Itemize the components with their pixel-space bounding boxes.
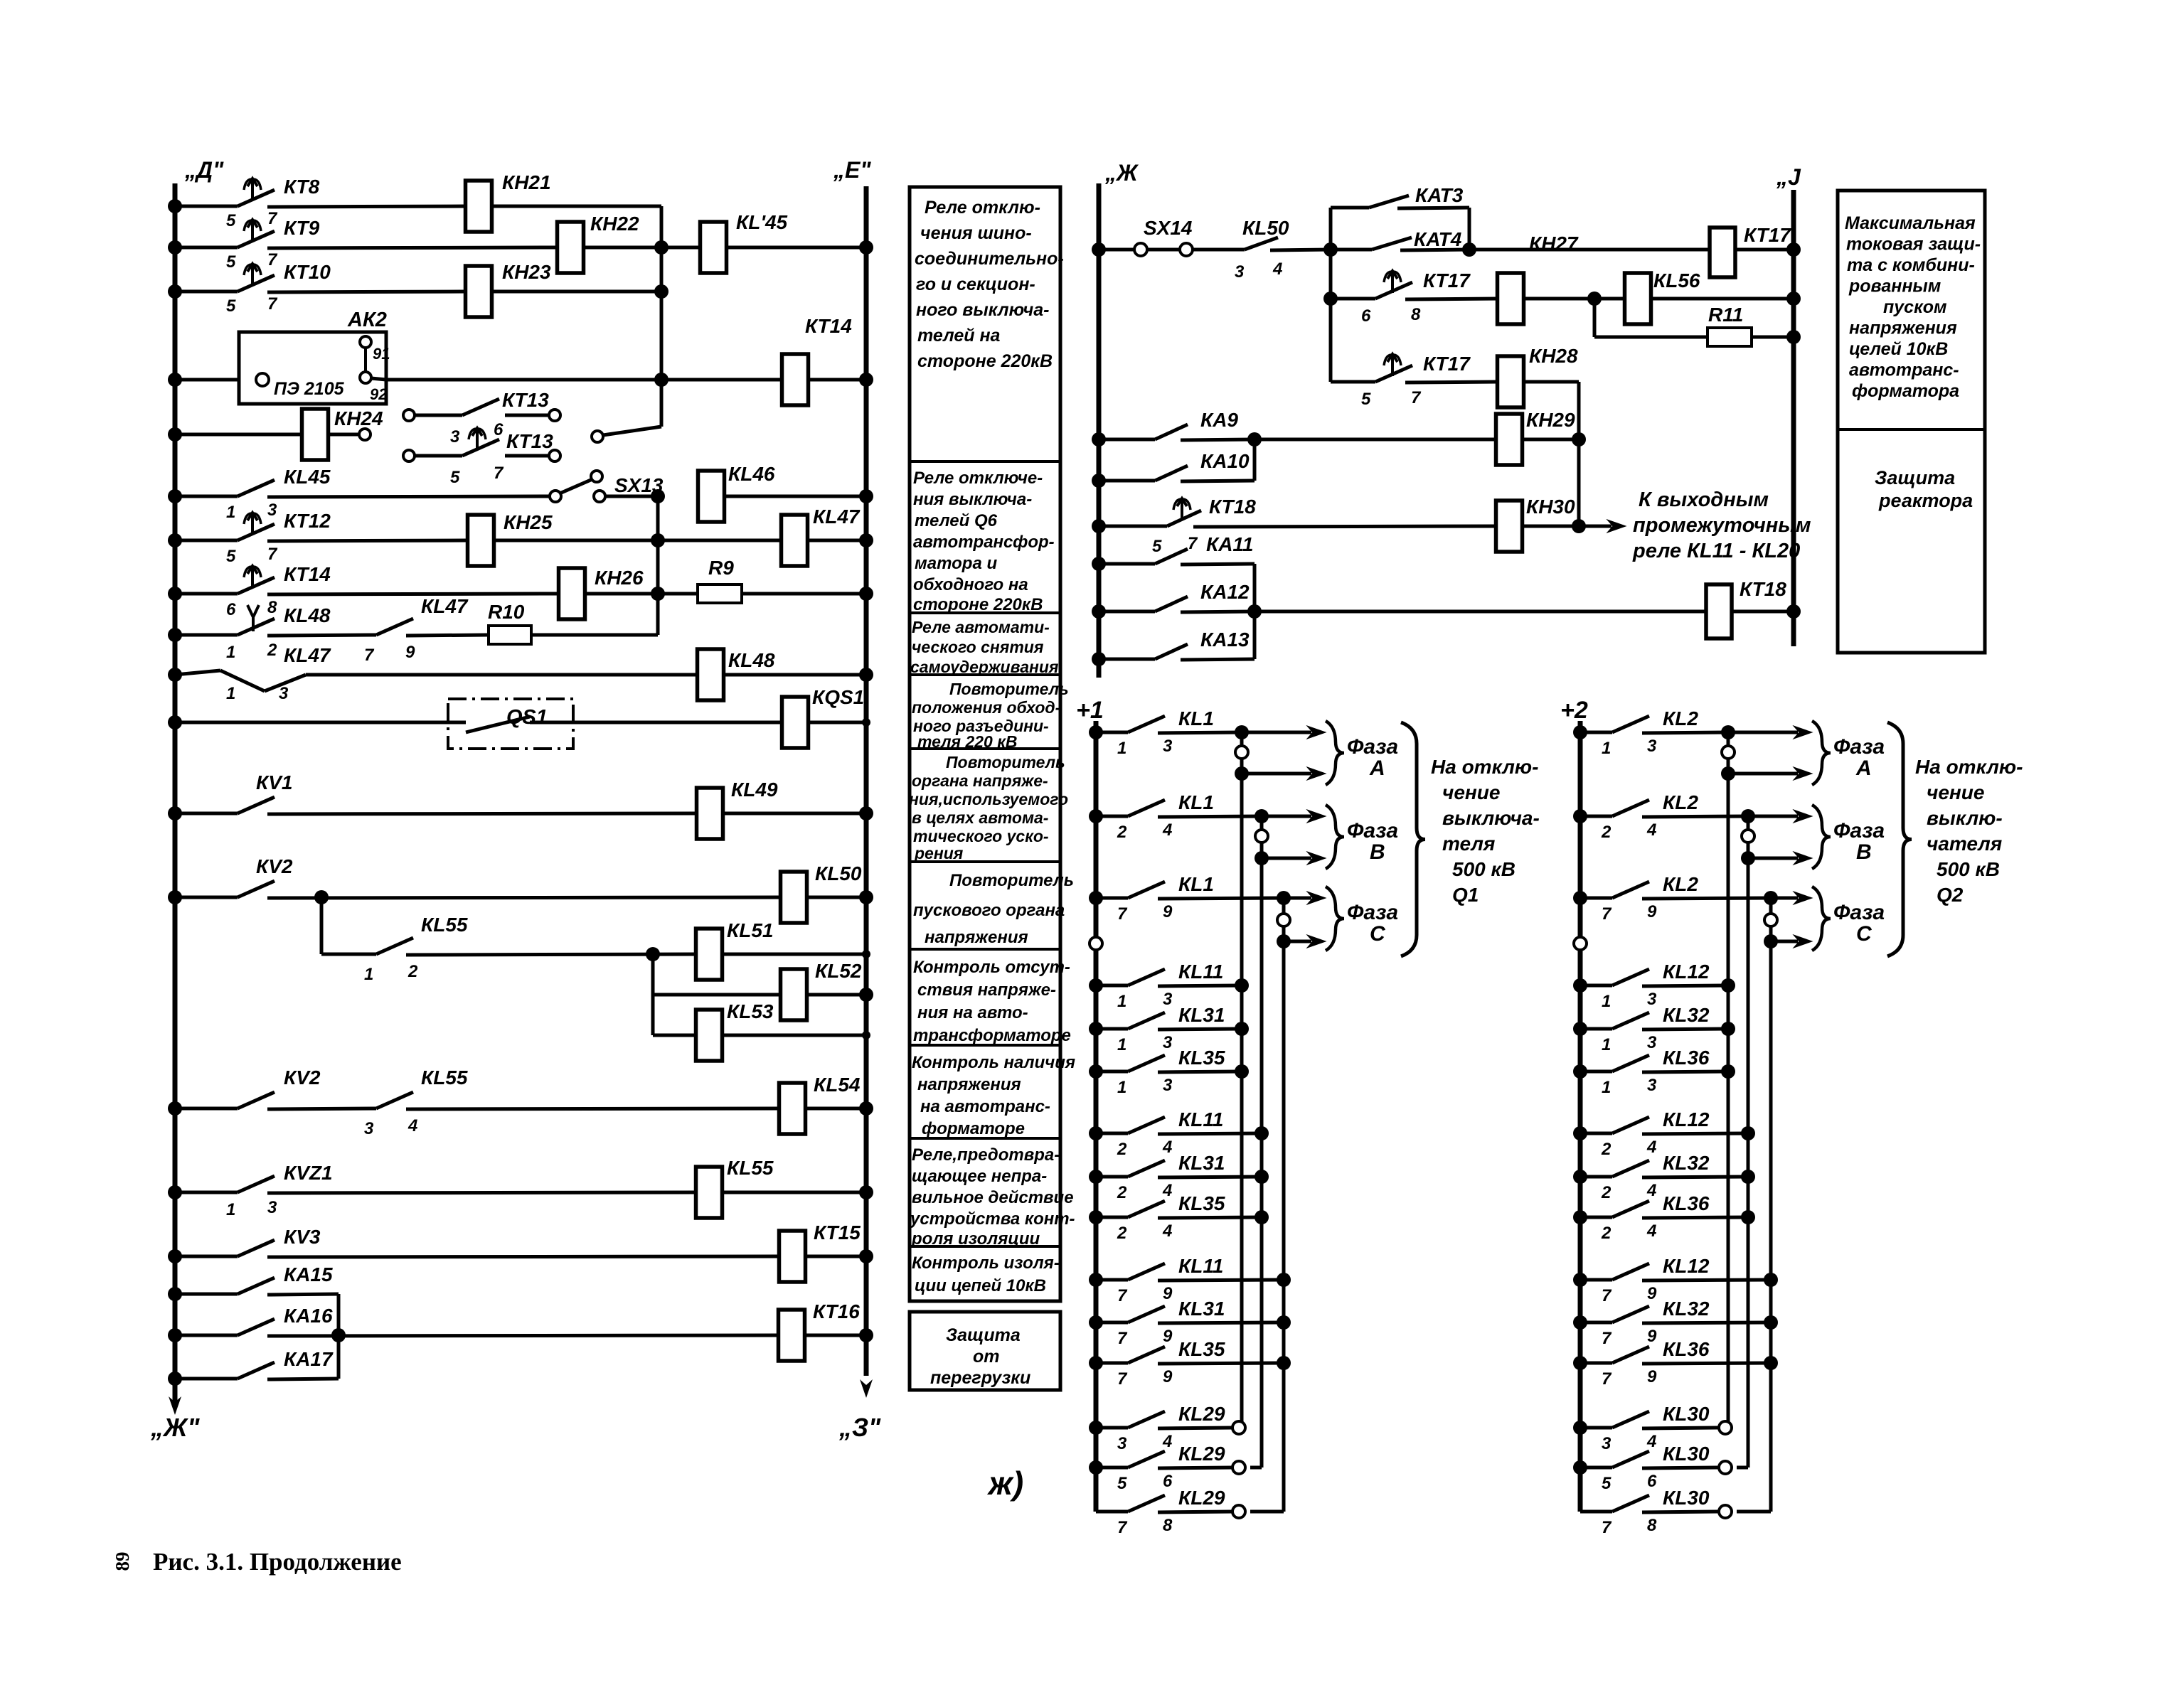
svg-text:положения обход-: положения обход- xyxy=(912,698,1060,717)
svg-text:КL12: КL12 xyxy=(1663,1108,1710,1130)
svg-text:9: 9 xyxy=(1647,1367,1657,1386)
junction xyxy=(1247,432,1262,447)
svg-text:5: 5 xyxy=(226,211,236,230)
svg-text:R10: R10 xyxy=(488,601,525,623)
svg-text:реле КL11 - КL20: реле КL11 - КL20 xyxy=(1632,540,1800,562)
svg-text:КL12: КL12 xyxy=(1663,1255,1710,1277)
svg-text:Повторитель: Повторитель xyxy=(946,753,1065,771)
coil KQS1 xyxy=(782,686,865,748)
wire xyxy=(605,495,658,498)
svg-text:КТ8: КТ8 xyxy=(284,176,320,198)
wire phase vertical xyxy=(1240,732,1244,774)
junction xyxy=(1572,519,1586,533)
svg-text:9: 9 xyxy=(1163,902,1173,921)
contact КL35 (7-9) xyxy=(1096,1338,1284,1389)
junction xyxy=(859,806,873,820)
svg-text:1: 1 xyxy=(1602,739,1611,758)
svg-text:9: 9 xyxy=(405,643,415,662)
wire xyxy=(804,1334,866,1337)
junction xyxy=(646,947,660,961)
junction xyxy=(314,890,329,904)
junction xyxy=(1741,1170,1755,1184)
junction xyxy=(1089,1210,1103,1224)
svg-text:5: 5 xyxy=(1602,1474,1612,1493)
wire xyxy=(807,539,866,542)
svg-text:КV2: КV2 xyxy=(256,855,293,877)
svg-text:КН21: КН21 xyxy=(502,171,551,193)
coil KH29 xyxy=(1496,409,1576,465)
arrow phase output xyxy=(1247,767,1326,780)
wire xyxy=(1253,564,1257,659)
junction xyxy=(1092,557,1106,571)
wire phase vertical xyxy=(1282,898,1286,941)
junction xyxy=(168,373,182,387)
svg-text:4: 4 xyxy=(407,1116,417,1135)
contact КL2 (7-9) xyxy=(1580,873,1771,924)
svg-text:9: 9 xyxy=(1163,1367,1173,1386)
wire xyxy=(1522,525,1579,528)
junction xyxy=(1573,1022,1587,1036)
junction xyxy=(168,1328,182,1342)
contact KA13 xyxy=(1099,629,1255,660)
wire xyxy=(724,495,866,498)
wire xyxy=(530,721,782,725)
contact КL11 (1-3) xyxy=(1096,961,1242,1011)
junction xyxy=(859,1328,873,1342)
svg-text:2: 2 xyxy=(407,962,418,981)
connector circle xyxy=(1722,746,1735,759)
svg-text:КА9: КА9 xyxy=(1200,409,1238,431)
junction xyxy=(1573,1210,1587,1224)
wire xyxy=(723,812,866,816)
contact КL32 (7-9) xyxy=(1580,1298,1771,1348)
svg-text:КL35: КL35 xyxy=(1178,1192,1225,1214)
big brace xyxy=(1401,722,1425,956)
wire xyxy=(1735,248,1794,252)
svg-text:КL31: КL31 xyxy=(1178,1152,1225,1174)
switch SX14 xyxy=(1099,217,1193,256)
coil KL46 xyxy=(698,463,775,522)
svg-text:КТ16: КТ16 xyxy=(813,1300,860,1322)
wire xyxy=(653,995,696,1035)
svg-text:ния на авто-: ния на авто- xyxy=(917,1003,1028,1022)
node +1 label xyxy=(1076,697,1104,724)
svg-text:целей 10кВ: целей 10кВ xyxy=(1849,339,1948,359)
svg-text:9: 9 xyxy=(1163,1327,1173,1346)
svg-text:КL36: КL36 xyxy=(1663,1338,1710,1360)
svg-text:9: 9 xyxy=(1163,1284,1173,1303)
svg-text:КL36: КL36 xyxy=(1663,1047,1710,1069)
label Фаза С xyxy=(1833,901,1885,946)
svg-text:Контроль отсут-: Контроль отсут- xyxy=(913,958,1070,977)
wire xyxy=(329,433,359,437)
svg-text:КL29: КL29 xyxy=(1178,1443,1225,1465)
resistor R10 xyxy=(488,601,531,644)
svg-text:R11: R11 xyxy=(1708,304,1743,326)
svg-text:КL29: КL29 xyxy=(1178,1487,1225,1509)
coil KL55 xyxy=(696,1157,774,1218)
svg-text:пуском: пуском xyxy=(1883,297,1947,317)
wire xyxy=(805,1107,866,1111)
junction xyxy=(1721,1064,1735,1079)
wire xyxy=(371,378,661,380)
svg-text:6: 6 xyxy=(1361,306,1371,326)
svg-text:5: 5 xyxy=(1361,390,1371,409)
right rail bottom arrow xyxy=(860,1379,873,1398)
svg-text:Фаза: Фаза xyxy=(1833,901,1885,924)
svg-text:КL2: КL2 xyxy=(1663,873,1698,895)
junction xyxy=(1786,242,1801,257)
svg-text:трансформаторе: трансформаторе xyxy=(913,1026,1071,1045)
svg-text:Защита: Защита xyxy=(946,1325,1021,1345)
contact KA17 xyxy=(175,1348,339,1379)
junction xyxy=(1255,1170,1269,1184)
contact KV1 xyxy=(175,771,697,814)
junction xyxy=(1573,1170,1587,1184)
junction xyxy=(1089,1170,1103,1184)
wire xyxy=(1523,382,1579,526)
svg-text:телей Q6: телей Q6 xyxy=(915,511,998,530)
svg-text:теля 220 кВ: теля 220 кВ xyxy=(917,732,1018,751)
svg-text:КА11: КА11 xyxy=(1206,533,1254,555)
junction xyxy=(1741,809,1755,823)
svg-text:4: 4 xyxy=(1646,1221,1656,1241)
junction xyxy=(1092,519,1106,533)
svg-text:9: 9 xyxy=(1647,1327,1657,1346)
svg-text:КТ13: КТ13 xyxy=(506,430,553,452)
junction xyxy=(1089,1126,1103,1140)
connector circle xyxy=(1764,914,1777,926)
contact KL55 (3-4) xyxy=(364,1066,779,1138)
contact KV2 xyxy=(175,855,781,898)
contact КL2 (1-3) xyxy=(1580,707,1728,758)
svg-text:КL11: КL11 xyxy=(1178,1108,1223,1130)
junction xyxy=(168,587,182,601)
contact KA10 xyxy=(1099,450,1255,481)
svg-text:КН27: КН27 xyxy=(1529,232,1579,255)
arrow phase output xyxy=(1267,810,1326,823)
svg-text:чение: чение xyxy=(1927,781,1984,803)
coil KL53 xyxy=(696,1000,774,1061)
junction xyxy=(1572,432,1586,447)
svg-text:На отклю-: На отклю- xyxy=(1431,756,1538,778)
junction xyxy=(1235,766,1249,781)
svg-text:КL52: КL52 xyxy=(815,960,862,982)
svg-text:щающее непра-: щающее непра- xyxy=(912,1167,1047,1186)
contact KL47 (7-9) xyxy=(364,595,488,665)
svg-text:3: 3 xyxy=(1163,737,1173,756)
node D label xyxy=(184,157,224,183)
connector circle xyxy=(1719,1421,1732,1434)
svg-text:9: 9 xyxy=(1647,902,1657,921)
junction xyxy=(1235,1022,1249,1036)
node E label xyxy=(833,157,871,183)
svg-text:3: 3 xyxy=(1163,1076,1173,1095)
junction xyxy=(1573,1460,1587,1475)
junction xyxy=(1573,1064,1587,1079)
wire xyxy=(723,673,866,677)
svg-text:Максимальная: Максимальная xyxy=(1845,213,1976,233)
arrow phase output xyxy=(1777,892,1812,904)
svg-text:3: 3 xyxy=(1163,1033,1173,1052)
junction xyxy=(1092,242,1106,257)
svg-text:КАТ4: КАТ4 xyxy=(1414,228,1462,250)
right rail И xyxy=(1791,190,1796,646)
brace phase С xyxy=(1326,887,1344,951)
svg-text:КН29: КН29 xyxy=(1526,409,1575,431)
svg-text:2: 2 xyxy=(1601,1224,1612,1243)
svg-text:4: 4 xyxy=(1162,1432,1172,1451)
svg-text:7: 7 xyxy=(1117,1518,1128,1537)
wire xyxy=(653,954,781,995)
svg-text:роля изоляции: роля изоляции xyxy=(911,1229,1040,1249)
arrow phase output xyxy=(1754,852,1812,865)
coil KH21 xyxy=(466,171,551,232)
svg-text:К выходным: К выходным xyxy=(1639,488,1769,511)
label destination xyxy=(1915,756,2023,906)
junction xyxy=(1721,725,1735,739)
svg-text:„Е": „Е" xyxy=(833,157,871,183)
contact КL29 (3-4) xyxy=(1096,1403,1233,1453)
node J label xyxy=(1776,164,1801,190)
junction xyxy=(1255,809,1269,823)
svg-text:„Д": „Д" xyxy=(184,157,224,183)
big brace xyxy=(1887,722,1912,956)
junction xyxy=(1092,474,1106,488)
svg-text:КН25: КН25 xyxy=(504,511,553,533)
contact КL12 (7-9) xyxy=(1580,1255,1771,1305)
svg-text:Реле автомати-: Реле автомати- xyxy=(912,618,1050,636)
svg-text:выклю-: выклю- xyxy=(1927,807,2003,829)
svg-text:стороне 220кВ: стороне 220кВ xyxy=(917,351,1053,371)
svg-text:Реле отключе-: Реле отключе- xyxy=(913,469,1043,488)
junction xyxy=(168,427,182,442)
junction xyxy=(859,373,873,387)
junction xyxy=(1323,292,1338,306)
svg-text:КТ12: КТ12 xyxy=(284,510,331,532)
svg-text:4: 4 xyxy=(1646,1432,1656,1451)
brace phase С xyxy=(1812,887,1831,951)
contact KT14 (6-8) with time-delay symbol xyxy=(175,563,559,619)
svg-text:7: 7 xyxy=(494,464,504,483)
rail connector circle xyxy=(1090,937,1102,950)
svg-text:КL'45: КL'45 xyxy=(736,211,788,233)
junction xyxy=(1092,432,1106,447)
wire xyxy=(806,993,866,997)
contact КL36 (1-3) xyxy=(1580,1047,1728,1097)
svg-text:ного выключа-: ного выключа- xyxy=(916,300,1049,320)
svg-text:1: 1 xyxy=(1602,1035,1611,1054)
svg-text:КV2: КV2 xyxy=(284,1066,321,1089)
svg-text:КТ17: КТ17 xyxy=(1744,224,1791,246)
svg-text:3: 3 xyxy=(1647,737,1657,756)
contact KT13 (5-7) with time-delay symbol xyxy=(403,428,560,487)
svg-text:КL32: КL32 xyxy=(1663,1152,1710,1174)
svg-text:в целях автома-: в целях автома- xyxy=(912,808,1048,827)
wire xyxy=(1255,610,1706,614)
contact KA12 xyxy=(1099,581,1255,612)
junction xyxy=(1764,1273,1778,1287)
svg-text:5: 5 xyxy=(1152,537,1162,556)
svg-text:„J: „J xyxy=(1776,164,1801,190)
svg-text:8: 8 xyxy=(1411,305,1421,324)
junction xyxy=(859,988,873,1002)
junction xyxy=(168,199,182,213)
svg-text:КА12: КА12 xyxy=(1200,581,1250,603)
svg-text:КТ17: КТ17 xyxy=(1423,353,1471,375)
brace phase В xyxy=(1812,805,1831,869)
junction xyxy=(1573,1315,1587,1330)
arrow to output relays xyxy=(1583,520,1626,533)
junction xyxy=(168,1185,182,1199)
junction xyxy=(651,587,665,601)
svg-text:5: 5 xyxy=(226,547,236,566)
svg-text:Реле отклю-: Реле отклю- xyxy=(925,198,1040,218)
contact KAT4 xyxy=(1331,228,1469,250)
svg-text:1: 1 xyxy=(1117,1035,1126,1054)
svg-text:напряжения: напряжения xyxy=(925,928,1028,947)
junction xyxy=(331,1328,346,1342)
junction xyxy=(168,1249,182,1263)
junction xyxy=(859,1185,873,1199)
wire xyxy=(1651,297,1794,301)
junction xyxy=(1247,604,1262,619)
connector circle xyxy=(1232,1505,1245,1518)
label Фаза В xyxy=(1347,819,1398,864)
coil KH28 xyxy=(1498,345,1579,407)
switch SX13 xyxy=(550,471,664,502)
junction xyxy=(1462,242,1476,257)
svg-text:1: 1 xyxy=(226,503,235,522)
wire branch vertical xyxy=(1329,250,1333,382)
svg-text:ния,используемого: ния,используемого xyxy=(909,790,1068,808)
svg-text:7: 7 xyxy=(1602,1518,1612,1537)
coil KL51 xyxy=(696,919,774,980)
junction xyxy=(1277,1273,1291,1287)
svg-text:92: 92 xyxy=(370,385,388,403)
svg-text:КL30: КL30 xyxy=(1663,1403,1710,1425)
left rail Д xyxy=(173,183,178,1392)
svg-text:2: 2 xyxy=(1117,1224,1127,1243)
svg-text:КL1: КL1 xyxy=(1178,707,1214,729)
junction xyxy=(1277,891,1291,905)
arrow phase output xyxy=(1247,726,1326,739)
svg-text:91: 91 xyxy=(373,345,390,363)
svg-text:рованным: рованным xyxy=(1848,277,1941,296)
svg-text:КL35: КL35 xyxy=(1178,1047,1225,1069)
svg-text:КТ14: КТ14 xyxy=(805,315,852,337)
svg-text:Фаза: Фаза xyxy=(1833,819,1885,843)
label to output relays xyxy=(1632,488,1811,562)
wire phase vertical xyxy=(1769,898,1773,941)
junction xyxy=(1764,1315,1778,1330)
svg-text:+1: +1 xyxy=(1076,697,1104,724)
rail connector circle xyxy=(1574,937,1587,950)
arrow phase output xyxy=(1289,935,1326,948)
svg-text:1: 1 xyxy=(1117,992,1126,1011)
arrow phase output xyxy=(1777,935,1812,948)
page caption xyxy=(153,1548,402,1576)
coil KH23 xyxy=(466,261,552,317)
wire xyxy=(808,721,866,725)
svg-text:КL51: КL51 xyxy=(727,919,773,941)
svg-text:6: 6 xyxy=(226,600,236,619)
svg-text:4: 4 xyxy=(1162,1221,1172,1241)
svg-text:ния выключа-: ния выключа- xyxy=(913,490,1032,509)
contact КL35 (1-3) xyxy=(1096,1047,1242,1097)
junction xyxy=(1089,1315,1103,1330)
node +2 label xyxy=(1560,697,1588,724)
resistor R9 xyxy=(698,557,742,603)
contact КL36 (2-4) xyxy=(1580,1192,1748,1243)
svg-text:устройства конт-: устройства конт- xyxy=(910,1209,1075,1229)
wire xyxy=(175,378,258,382)
junction xyxy=(859,533,873,547)
svg-text:напряжения: напряжения xyxy=(917,1075,1021,1094)
contact KT13 (3-6) xyxy=(403,389,560,447)
junction xyxy=(1277,934,1291,948)
junction xyxy=(1721,1022,1735,1036)
junction xyxy=(168,890,182,904)
junction xyxy=(1721,978,1735,993)
junction xyxy=(862,1031,870,1039)
contact KA9 xyxy=(1099,409,1255,440)
svg-text:1: 1 xyxy=(226,643,235,662)
coil KL48 xyxy=(698,649,775,700)
label Фаза А xyxy=(1347,735,1398,780)
coil KL56 xyxy=(1625,269,1700,324)
node circle xyxy=(592,431,603,442)
junction xyxy=(1235,1064,1249,1079)
junction xyxy=(1277,1315,1291,1330)
junction xyxy=(1089,1421,1103,1435)
node З label bottom xyxy=(838,1413,881,1442)
svg-text:3: 3 xyxy=(267,501,277,520)
contact КL30 (3-4) xyxy=(1580,1403,1720,1453)
contact KL45 (1-3) xyxy=(175,466,550,522)
label Фаза А xyxy=(1833,735,1885,780)
junction xyxy=(1721,766,1735,781)
left rail bottom arrow xyxy=(169,1372,181,1415)
wire xyxy=(532,634,658,637)
svg-text:Повторитель: Повторитель xyxy=(949,680,1069,698)
svg-text:Фаза: Фаза xyxy=(1833,735,1885,759)
wire phase vertical xyxy=(1747,816,1750,858)
right rail Е xyxy=(864,186,869,1376)
arrow phase output xyxy=(1289,892,1326,904)
svg-text:С: С xyxy=(1856,922,1873,946)
svg-text:матора и: матора и xyxy=(915,554,997,573)
svg-text:от: от xyxy=(973,1347,1000,1367)
junction xyxy=(1092,604,1106,619)
connector circle xyxy=(1232,1461,1245,1474)
svg-text:ции цепей 10кВ: ции цепей 10кВ xyxy=(915,1276,1046,1295)
arrow phase output xyxy=(1734,726,1812,739)
junction xyxy=(859,489,873,503)
svg-text:С: С xyxy=(1370,922,1386,946)
svg-text:7: 7 xyxy=(267,294,278,314)
svg-text:КТ18: КТ18 xyxy=(1209,496,1256,518)
junction xyxy=(168,668,182,682)
svg-text:7: 7 xyxy=(267,209,278,228)
junction xyxy=(1089,809,1103,823)
svg-text:4: 4 xyxy=(1272,260,1282,279)
svg-text:КL45: КL45 xyxy=(284,466,331,488)
svg-text:вильное действие: вильное действие xyxy=(912,1188,1074,1207)
junction xyxy=(859,668,873,682)
contact KT18 (5-7) with time-delay symbol xyxy=(1099,496,1496,556)
brace phase В xyxy=(1326,805,1344,869)
